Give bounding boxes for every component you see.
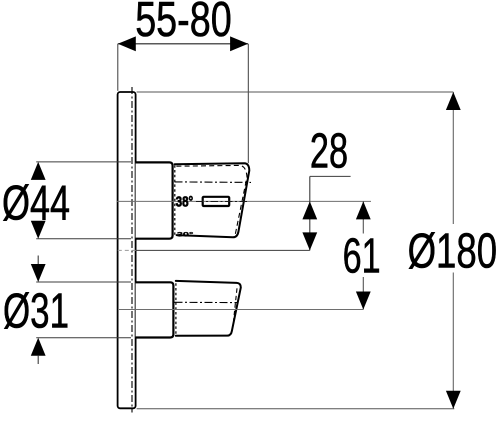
arrow right (230, 36, 248, 51)
dim line 28 (309, 176, 311, 250)
thermostat handle outline (175, 163, 250, 237)
arrow left (118, 36, 136, 51)
volume handle outline (176, 281, 241, 336)
lower knob centerline (dash-dot) (175, 301, 239, 303)
arrow 61 down (356, 292, 371, 310)
upper escutcheon sleeve Ø44 (136, 162, 173, 238)
svg-text:38°: 38° (176, 195, 194, 211)
extension line right (247, 44, 249, 163)
upper valve axis (117, 200, 371, 202)
ref line D31 bottom (36, 337, 131, 339)
svg-text:Ø31: Ø31 (3, 285, 69, 339)
volume handle body (lower knob) fill (176, 281, 241, 336)
arrow 28 down (302, 232, 317, 250)
thermostat handle body (upper knob) fill (175, 163, 250, 237)
arrow 61 up (356, 201, 371, 219)
svg-text:55-80: 55-80 (135, 0, 232, 47)
svg-text:61: 61 (343, 230, 381, 284)
arrow D180 up (446, 92, 461, 110)
dim line 61 upper (362, 201, 364, 233)
wall plate (escutcheon Ø180, side view) (118, 92, 136, 408)
hidden edge under knob top and right (dashed) (176, 165, 247, 233)
arrow D180 down (446, 391, 461, 409)
knob rear edge (dotted) (174, 165, 176, 235)
arrow 28 up (302, 201, 317, 219)
arrow D44 up (31, 162, 46, 180)
ref line D44 top (36, 161, 131, 163)
stem below D31 (37, 356, 39, 364)
label 30deg (squashed) (177, 231, 194, 238)
plate centerline (wall plane) (131, 87, 133, 413)
temperature button (203, 197, 230, 206)
valve axis dash-dot through button (196, 201, 249, 203)
ref line D180 bottom (137, 408, 455, 410)
ref line D31 top (36, 281, 131, 283)
dim line 55-80 (118, 43, 248, 45)
svg-text:30°: 30° (177, 231, 194, 238)
knob grip centerline (dash-dot) (175, 181, 252, 184)
ref line D180 top (137, 91, 454, 93)
stem between D44 and D31 (37, 256, 39, 265)
dim line D180 lower (452, 273, 454, 409)
shelf line 28 (310, 175, 351, 177)
svg-text:28: 28 (310, 124, 348, 178)
dim line D180 upper (452, 92, 454, 224)
dim line 61 lower (362, 277, 364, 310)
arrow D31 down (above) (31, 264, 46, 282)
ref line D44 bottom (36, 238, 131, 240)
reference line 28 bottom (hidden in plate) (118, 249, 136, 251)
svg-text:Ø180: Ø180 (408, 225, 498, 279)
arrow D31 up (below) (31, 338, 46, 356)
lower knob hidden edge (dashed) (234, 288, 238, 321)
lower knob rear edge (dotted) (175, 283, 177, 334)
lower escutcheon sleeve Ø31 (136, 282, 174, 337)
extension line left (117, 44, 119, 91)
lower valve axis (119, 309, 363, 311)
arrow D44 down (31, 221, 46, 239)
